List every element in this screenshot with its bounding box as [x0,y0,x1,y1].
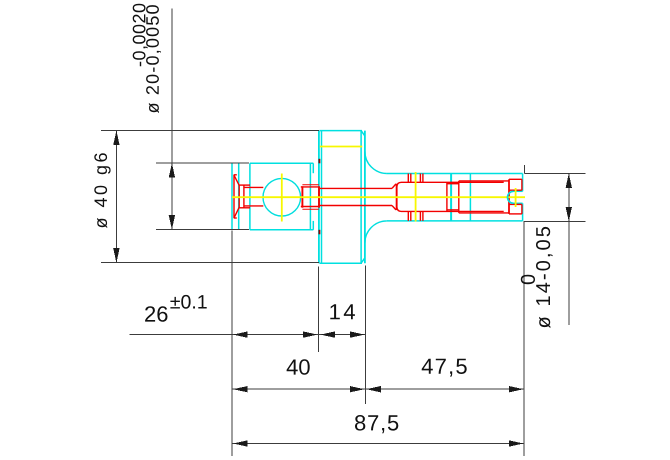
red inner spindle [234,174,522,221]
body right edge [309,163,311,230]
cyan curved edges (anti-aliased) [263,152,387,243]
arrow 14 left [321,331,336,337]
vertical centerline slot [515,188,517,207]
dim line dia14 [568,174,570,326]
fillet flange to shaft top [365,152,387,174]
pin washer bottom edge [239,207,250,209]
end cap finger top inner edge [509,189,522,191]
flange top right chamfer [361,131,365,136]
drawbar step chamfer top [392,184,396,189]
pin neck left vertical [238,185,240,208]
vertical centerline cross hole [415,172,417,222]
label 26 [145,306,167,322]
arrow 40 right [350,386,365,392]
arrow 26 left [233,331,248,337]
groove 2a bottom [419,211,421,221]
label 87,5 [355,415,398,433]
hidden tick top [318,159,320,164]
body left edge [249,163,251,230]
right face bottom [522,203,524,221]
right face top [522,174,524,192]
dimension texts [94,4,552,434]
ext line dia14 top [524,173,585,175]
label 14 [330,304,355,319]
hidden tick bottom [318,230,320,235]
groove 2b top [422,174,424,183]
pin head top hook [234,174,237,176]
collar right vertical [318,186,320,207]
ext line left face [231,231,233,457]
vertical centerline through ball [281,174,283,222]
arrowheads [113,131,572,447]
label dia 20 line2 [146,5,161,113]
collar left vertical [301,186,303,207]
arrow 26 right [303,331,318,337]
dim line 40 and 47,5 [232,388,524,390]
end cap right bottom [521,204,523,214]
dim line dia20 [171,9,173,230]
wide section left face line [395,184,397,210]
ring face 2 [458,181,460,213]
slot bottom edge [514,202,523,204]
label +-0.1 [170,295,206,309]
ext line dia20 bottom [156,229,249,231]
neck step bottom [312,221,314,230]
collar top thin edge [302,184,319,186]
slot end arc [508,191,514,203]
pin neck bottom edge [244,205,263,207]
left disc left edge [231,163,233,230]
clamping ball [263,178,301,216]
pin head bottom hook [234,217,237,219]
arrow 14 right [350,331,365,337]
dark red hidden edge ticks [318,159,320,235]
flange bottom edge [320,262,363,264]
end cap bottom edge [509,213,522,215]
end cap finger bottom inner edge [509,203,522,205]
label dia 40 g6 [94,153,110,228]
shaft top edge [387,173,523,175]
label dia 14 line2 [536,227,553,328]
pin washer top edge [239,184,250,186]
label dia 14 line1 [521,275,535,285]
label 47,5 [422,359,467,377]
arrow dia14 up [566,174,572,189]
shaft bottom edge [387,220,523,222]
left disc right edge [238,163,240,230]
corner tick right [524,165,526,173]
arrow 87,5 right [509,440,524,446]
end cap top edge [509,178,522,180]
arrow 47,5 left [366,386,381,392]
pin head bottom flank [234,207,239,218]
collar bottom thin edge [302,208,319,210]
shaft step 2 [469,174,471,221]
collar top edge [301,186,320,188]
body top edge [250,162,313,164]
main horizontal centerline [232,196,525,198]
drawbar top edge [319,187,392,189]
label dia 20 line1 [133,4,148,66]
drawbar step chamfer bottom [392,206,396,210]
label 40 [287,359,310,375]
arrow dia20 down [169,215,175,230]
ext line flange right [364,266,366,405]
neck step top [312,163,314,173]
groove 1a top [407,174,409,183]
dim line 87,5 [232,443,524,445]
section3 bottom edge [459,212,509,214]
collar bottom edge [301,206,320,208]
arrow 87,5 left [233,440,248,446]
ext line right face [523,221,525,456]
fillet flange to shaft bottom [365,221,387,243]
flange right edge inner [360,131,362,264]
flange left edge outer [318,131,320,264]
ring top edge [447,183,459,185]
ext line dia40 bottom [101,262,319,264]
groove 1b top [410,174,412,183]
flange bottom right chamfer [361,258,365,263]
ext line groove [318,267,320,353]
groove 1a bottom [407,211,409,221]
flange right edge outer [364,131,366,264]
wide section outline with rounded left corners [397,182,504,211]
ext line dia14 bottom [524,220,585,222]
pin head top flank [234,175,239,185]
groove 2a top [419,174,421,183]
ring face 1 [446,182,448,211]
dim line 26 and 14 [129,334,365,336]
arrow dia40 up [113,131,119,146]
arrow dia14 down [566,207,572,222]
dim line dia40 [115,131,117,263]
drawbar bottom edge [319,205,392,207]
arrow dia40 down [113,248,119,263]
ext line dia20 top [156,162,249,164]
flange top edge [320,130,363,132]
pin neck top edge [244,186,263,188]
groove 1b bottom [410,211,412,221]
cyan part outline [232,131,523,264]
pin head face [233,175,235,219]
groove 2b bottom [422,211,424,221]
black dimension lines [101,9,586,457]
end cap left face [508,179,510,214]
arrow 47,5 right [509,386,524,392]
section3 top edge [459,180,509,182]
flange bolt-circle line [320,146,362,148]
shaft step 1 [450,174,452,221]
arrow dia20 up [169,163,175,178]
flange left edge inner [321,131,323,264]
body bottom edge [250,229,313,231]
slot top edge [514,190,523,192]
yellow center lines [232,147,525,222]
ring bottom edge [447,209,459,211]
arrow 40 left [233,386,248,392]
end cap right top [521,179,523,190]
pin washer vertical [243,185,245,208]
ext line dia40 top [101,130,319,132]
